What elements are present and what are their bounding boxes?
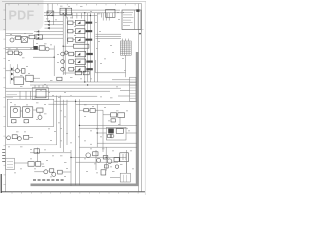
wire input row 3	[45, 27, 64, 29]
transistor Q16	[52, 172, 56, 176]
opto-coupler U3 box	[75, 37, 85, 42]
diode D12 capsule	[86, 53, 92, 55]
bus vertical J	[75, 99, 77, 185]
diode D6 input	[37, 34, 39, 37]
wire j3 link	[110, 177, 120, 179]
wire row links	[6, 137, 7, 139]
capacitor C3 dark	[33, 46, 37, 50]
transistor Q8	[15, 69, 19, 73]
bus vertical left pin rail 2	[64, 13, 66, 75]
connector J2 ladder	[130, 77, 136, 101]
wire input row 4	[34, 31, 63, 33]
wire right bus 2	[76, 103, 120, 105]
wire cross link 2	[48, 103, 67, 105]
resistor R21	[90, 109, 95, 113]
border frame bottom line	[1, 191, 145, 193]
bus vertical G	[62, 100, 64, 152]
wire row 1 link	[73, 22, 75, 24]
wire bottom verticals	[95, 150, 97, 170]
shield ground bus (thick gray L)	[31, 52, 138, 185]
resistor R12	[36, 35, 43, 39]
bus vertical L	[96, 104, 98, 147]
title block registration cross	[139, 29, 143, 31]
capacitor C4	[22, 69, 25, 74]
wire vr links	[103, 114, 111, 116]
zener diode ZD1	[11, 68, 13, 71]
opto-coupler U1 diode	[78, 21, 81, 24]
transformer T1	[106, 127, 126, 140]
regulator VR2 box	[118, 113, 125, 118]
wire right bus 1	[76, 100, 137, 102]
wire mid bus 2	[6, 49, 40, 51]
transistor Q4	[61, 52, 65, 56]
relay module outline	[7, 99, 54, 126]
diode D3 input	[47, 24, 49, 27]
diode D11 capsule	[86, 39, 93, 41]
transistor Q12	[97, 158, 101, 162]
resistor R29	[49, 169, 53, 172]
resistor R16	[26, 75, 33, 81]
IC U12 box	[120, 153, 129, 162]
wire row 2 link	[73, 30, 75, 32]
border frame outer top line	[2, 1, 146, 3]
border frame top line	[6, 3, 142, 5]
wire grid drops	[122, 39, 124, 41]
capacitor C1	[60, 8, 66, 15]
wire mid drop d	[52, 16, 54, 25]
title block stamp mark	[136, 9, 139, 12]
wire row 4 link	[74, 53, 76, 55]
resistor R17	[37, 108, 43, 112]
wire row 6 link	[74, 68, 76, 70]
diode D20	[11, 120, 16, 123]
title block revision dot	[139, 33, 141, 35]
wire bottom row link	[63, 72, 75, 74]
wire right bus 3	[79, 124, 136, 126]
wire r27 link	[41, 163, 44, 165]
pdf badge ghost	[0, 0, 44, 31]
resistor R4	[69, 52, 74, 56]
svg-text:PDF: PDF	[9, 8, 35, 22]
wire band links	[24, 78, 26, 80]
resistor R13	[39, 46, 45, 50]
bus vertical F	[59, 96, 61, 149]
resistor R28	[36, 162, 41, 167]
resistor R26	[114, 158, 119, 162]
resistor R32	[24, 135, 29, 139]
opto-coupler U2 diode	[78, 30, 81, 33]
wire right link 1	[97, 142, 137, 144]
bus wire A	[30, 81, 137, 83]
resistor R5	[69, 60, 74, 64]
resistor R25	[103, 156, 108, 159]
relay K2	[23, 107, 33, 118]
diode D7 input	[37, 37, 39, 40]
transistor Q15	[44, 170, 48, 174]
regulator VR1 box	[111, 113, 117, 117]
resistor R27	[28, 162, 34, 167]
wire mid drop c	[46, 16, 48, 22]
opto-coupler U5 box	[75, 59, 85, 64]
wire module internal	[20, 110, 22, 112]
wire top drops right	[101, 13, 103, 18]
resistor R10	[16, 36, 21, 39]
transistor Q11	[86, 153, 91, 158]
resistor network RN1	[74, 44, 89, 48]
border frame bottom ruler ticks	[11, 192, 13, 194]
bus wire B	[30, 84, 137, 86]
wire cross link 1	[54, 100, 75, 102]
wire u10 pins	[34, 85, 36, 88]
wire rn1 feed	[63, 45, 73, 47]
junction dots	[63, 13, 64, 14]
wire tb feeds	[96, 33, 122, 35]
wire input row 6	[34, 37, 63, 39]
transistor Q18	[18, 137, 22, 141]
bus vertical rail x97.4	[96, 13, 98, 82]
wire bl bus	[30, 152, 71, 154]
opto-coupler U1 box	[75, 20, 85, 25]
wire zener rail	[9, 64, 11, 84]
bus wire C	[6, 87, 121, 89]
bus vertical rail x90.4	[89, 13, 91, 82]
diode D21	[24, 120, 29, 123]
wire row bus	[6, 144, 57, 146]
title block box	[122, 10, 141, 30]
border frame left edge bar	[0, 174, 2, 193]
diode D2 input	[47, 20, 49, 23]
bus vertical mid	[53, 46, 55, 76]
wire mid right	[49, 48, 54, 50]
connector J1 pin grid	[120, 41, 131, 55]
transistor Q2	[45, 47, 49, 51]
diode D22	[108, 134, 112, 137]
wire right link 2	[79, 146, 136, 148]
capacitor C2	[67, 8, 72, 15]
resistor R30	[58, 170, 63, 174]
title block text lines	[123, 11, 133, 13]
wire top drops	[66, 13, 68, 19]
bus vertical K	[78, 99, 80, 185]
wire q8 links	[6, 70, 16, 72]
bus vertical E	[56, 96, 58, 146]
wire badge-left feed 2	[6, 35, 21, 37]
battery BT1	[6, 158, 15, 169]
wire c3 link	[38, 47, 39, 49]
connector J4	[101, 170, 106, 175]
fuse F1	[57, 77, 62, 80]
relay K3 box	[106, 9, 115, 17]
opto-coupler U3 diode	[78, 38, 81, 41]
transistor Q3	[19, 52, 22, 55]
resistor R11	[29, 35, 35, 39]
battery BT1 label text	[2, 149, 5, 151]
capacitor C10	[111, 119, 115, 122]
top bus wire 1	[44, 12, 124, 14]
wire input row 1	[45, 20, 64, 22]
top bus wire 3	[60, 9, 120, 11]
diode D10 capsule	[86, 30, 93, 32]
transformer T1 secondary	[116, 129, 123, 134]
opto-coupler U6 diode	[77, 68, 80, 71]
zener diode ZD2	[11, 73, 13, 76]
bus vertical H	[66, 100, 68, 145]
diode D14 capsule	[86, 68, 92, 70]
wire j1 to j2	[125, 55, 127, 77]
title block divider	[134, 10, 136, 30]
wire tp marks	[7, 94, 18, 96]
wire bottom bus 2	[76, 161, 118, 163]
relay K5 small box	[34, 149, 39, 153]
diode D13 capsule	[86, 61, 92, 63]
transistor Q17	[7, 136, 11, 140]
bus wire D	[6, 90, 110, 92]
resistor R24	[93, 152, 98, 156]
relay K1	[10, 107, 20, 118]
border frame right outer line	[141, 4, 143, 192]
zener diode ZD3	[11, 78, 13, 81]
annotation text specks	[46, 18, 49, 21]
diode D1	[47, 11, 54, 16]
wire r20 link	[79, 109, 83, 111]
border frame left line	[5, 4, 7, 192]
bus vertical rail x84.8	[84, 13, 86, 82]
resistor R3	[68, 38, 73, 41]
border frame top ruler ticks	[8, 4, 10, 6]
opto-coupler U5 diode	[77, 60, 80, 63]
wire q1 link	[14, 37, 16, 39]
wire bt1 link	[14, 162, 28, 164]
resistor R8 bottom row	[75, 71, 81, 75]
IC U10 box	[32, 88, 48, 100]
bus vertical left pin rail 1	[62, 13, 64, 75]
resistor R2	[68, 30, 73, 33]
wire badge-left feed 1	[6, 33, 33, 35]
wire mid link low	[33, 56, 54, 58]
diode D9 capsule	[86, 22, 93, 24]
resistor R9 bottom row	[83, 71, 89, 75]
wire q15 links	[34, 171, 44, 173]
border frame left ruler ticks	[3, 9, 5, 11]
wire t1 links	[97, 132, 106, 134]
wire bottom bus 1	[71, 156, 126, 158]
opto-coupler U2 box	[75, 29, 85, 34]
IC U10 inner	[36, 89, 46, 97]
transformer T1 primary	[108, 129, 114, 134]
wire row2 link	[6, 52, 8, 54]
diode D4 input	[47, 27, 49, 30]
resistor R20	[84, 109, 89, 112]
wire top drop b	[51, 4, 53, 16]
wire j2 feeds	[112, 79, 130, 81]
bus vertical rail x87.6	[87, 13, 89, 82]
bus vertical M	[102, 110, 104, 152]
connector J3 box	[120, 173, 130, 182]
bus vertical rail 3	[66, 17, 68, 44]
bus vertical I	[70, 150, 72, 186]
transistor Q9	[38, 115, 42, 119]
wire top drop a	[47, 4, 49, 13]
bus vertical rail x94.6	[94, 13, 96, 82]
transistor Q6	[61, 67, 65, 71]
transistor Q7 row	[65, 51, 68, 54]
resistor R14	[8, 51, 12, 55]
wire input row 5	[34, 34, 63, 36]
resistor R31	[12, 135, 17, 139]
capacitor C12	[104, 165, 108, 168]
wire right bus 4	[79, 127, 128, 129]
diode D5 input	[37, 30, 39, 33]
transistor Q13	[107, 159, 112, 164]
opto-coupler U6 box	[75, 67, 85, 72]
wire tb drops	[102, 13, 104, 21]
resistor R1	[68, 21, 73, 24]
transistor Q10	[110, 134, 114, 138]
transistor Q14	[115, 165, 118, 168]
title block inner divider	[137, 10, 139, 30]
crystal Y1	[21, 37, 27, 43]
wire input row 2	[45, 24, 64, 26]
opto-coupler U4 diode	[77, 53, 80, 56]
wire j1 link left	[96, 72, 126, 74]
bottom text row	[33, 179, 36, 181]
border frame right inner line	[138, 4, 140, 192]
wire module pins	[19, 91, 21, 99]
transistor Q5	[61, 60, 65, 64]
wire row 5 link	[74, 61, 76, 63]
resistor R15	[14, 51, 18, 55]
transistor Q1	[10, 38, 14, 42]
top bus wire 2	[44, 15, 97, 17]
bus wire E2	[6, 95, 98, 97]
resistor R6	[69, 67, 74, 71]
wire row 3 link	[73, 39, 75, 41]
varistor RV1	[14, 77, 24, 84]
opto-coupler U4 box	[75, 51, 85, 56]
border frame right margin line	[144, 1, 146, 195]
wire cluster drop	[33, 40, 35, 48]
wire mid bus 1	[6, 47, 34, 49]
